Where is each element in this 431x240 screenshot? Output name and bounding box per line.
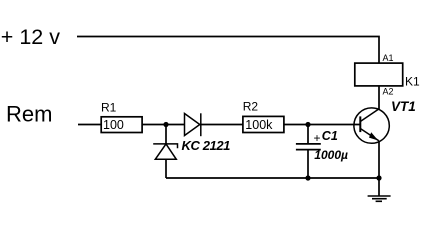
transistor VT1	[354, 108, 389, 143]
wire R2 to VT1 base	[284, 124, 360, 126]
svg-text:+: +	[314, 131, 321, 145]
bottom rail wire	[166, 177, 379, 179]
svg-text:VT1: VT1	[391, 99, 416, 114]
junction C1 bottom / rail	[305, 175, 310, 180]
ground	[368, 178, 391, 201]
svg-text:C1: C1	[322, 129, 338, 143]
wire node A down to zener cathode	[165, 125, 167, 145]
wire R1 to diode VD1	[142, 124, 185, 126]
wire diode VD1 to R2	[201, 124, 243, 126]
svg-text:+ 12 v: + 12 v	[1, 25, 60, 49]
wire Rem to R1	[78, 124, 102, 126]
svg-text:100: 100	[103, 118, 124, 132]
junction node A (R1 / VD1 / zener)	[163, 122, 168, 127]
diode VD1	[185, 113, 201, 136]
svg-text:A1: A1	[383, 53, 394, 63]
svg-text:A2: A2	[383, 87, 394, 97]
capacitor C1 plates	[296, 144, 321, 150]
resistor R2 body	[243, 116, 284, 132]
wire C1 bottom plate to bottom rail	[307, 150, 309, 178]
svg-text:1000µ: 1000µ	[314, 148, 348, 162]
wire relay A2 to VT1 collector	[378, 86, 380, 110]
zener diode KC2121	[153, 144, 177, 159]
wire node B down to C1 top plate	[307, 125, 309, 144]
relay K1 coil body	[355, 63, 403, 86]
resistor R1 body	[101, 117, 142, 133]
svg-text:100k: 100k	[245, 118, 273, 132]
wire zener anode to bottom rail	[165, 159, 167, 178]
wire +12V rail to relay	[77, 37, 379, 64]
wire VT1 emitter to ground node	[378, 141, 380, 178]
junction emitter / ground	[376, 175, 381, 180]
svg-text:Rem: Rem	[6, 101, 52, 126]
svg-text:K1: K1	[405, 75, 420, 89]
svg-text:R2: R2	[243, 100, 259, 114]
svg-text:KC 2121: KC 2121	[182, 138, 231, 153]
junction node B (R2 / C1 / base)	[305, 122, 310, 127]
svg-text:R1: R1	[101, 100, 117, 114]
